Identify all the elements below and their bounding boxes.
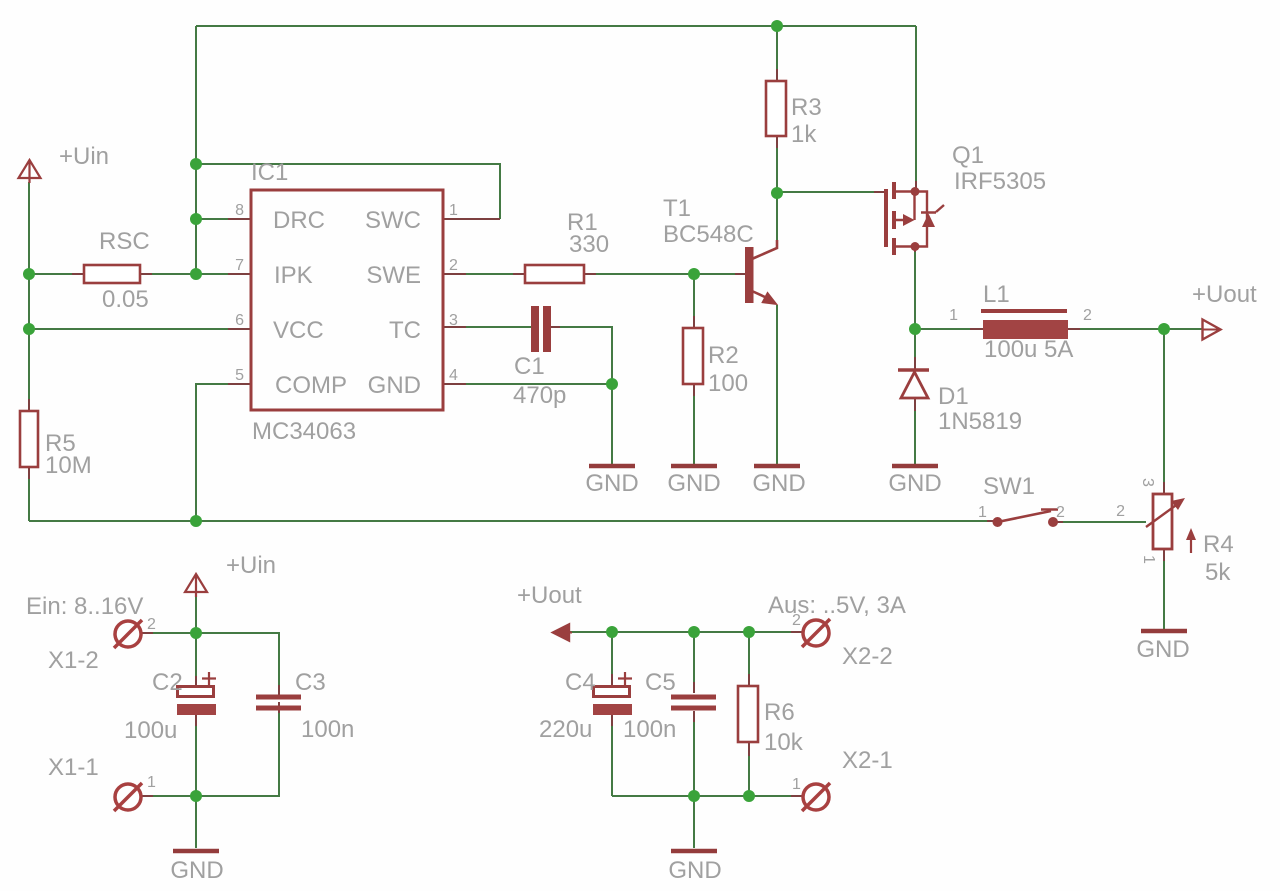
svg-text:SWE: SWE [366,262,421,289]
svg-text:+Uout: +Uout [1192,281,1257,308]
svg-text:2: 2 [1083,307,1092,324]
wire pin stub IC pin 8 [228,218,250,220]
node label +Uout arrow right [1192,281,1257,340]
svg-text:C5: C5 [645,669,676,696]
svg-text:C1: C1 [514,353,545,380]
svg-text:R3: R3 [791,94,822,121]
svg-text:1: 1 [978,504,987,521]
wire pin stub R4 bottom [1163,549,1165,561]
node junction R6 top [743,626,755,638]
wire Q1 drain down to L1 node [914,252,916,329]
wire pin stub X1-2 [142,632,153,634]
node junction SWC loop [190,158,202,170]
svg-text:1: 1 [792,776,801,793]
wire C5 top [693,632,695,682]
svg-text:Aus: ..5V, 3A: Aus: ..5V, 3A [768,592,906,619]
wire pin stub C3 bottom [278,702,280,713]
node junction R1 / T1 base / R2 [688,268,700,280]
svg-text:100n: 100n [301,716,354,743]
inductor L1 [949,281,1092,363]
wire pin stub L1 left [970,328,983,330]
wire R1 to T1 base node [596,273,735,275]
wire pin stub IC pin 4 [444,383,466,385]
wire D1 bottom to GND [914,411,916,464]
wire L1 node to L1 pin1 [915,328,970,330]
node junction R6 bottom [743,790,755,802]
wire R3 bottom to gate node [776,148,778,193]
wire L1 pin2 to +Uout node [1080,328,1164,330]
node junction Q1 drain / L1 / D1 [909,323,921,335]
svg-text:1k: 1k [791,121,817,148]
node junction VCC / R5 [23,323,35,335]
wire pin stub T1 base [735,273,745,275]
wire pin stub R5 top [28,399,30,411]
svg-text:470p: 470p [513,382,566,409]
node junction pin8 [190,213,202,225]
svg-text:TC: TC [389,317,421,344]
node junction X1-2 [190,627,202,639]
svg-text:1: 1 [449,202,458,219]
node junction C5 bottom [688,790,700,802]
wire X1 node to C2 [195,633,197,676]
svg-text:R2: R2 [708,342,739,369]
svg-text:GND: GND [368,372,421,399]
svg-text:220u: 220u [539,716,592,743]
node junction COMP / bottom rail [190,515,202,527]
wire pin stub Q1 source [915,181,917,191]
svg-text:+Uin: +Uin [226,552,276,579]
wire bottom rail [29,520,987,522]
wire pin stub L1 right [1068,328,1080,330]
svg-text:GND: GND [585,470,638,497]
svg-text:IRF5305: IRF5305 [954,168,1046,195]
wire pin stub C2 top [195,676,197,687]
svg-text:SW1: SW1 [983,473,1035,500]
wire R5 top [28,274,30,399]
wire R4 bottom to GND [1163,561,1165,629]
wire pin stub R1 right [584,273,596,275]
resistor R5 [20,411,92,479]
svg-text:X1-2: X1-2 [48,647,99,674]
svg-text:GND: GND [667,470,720,497]
svg-text:T1: T1 [663,195,691,222]
switch SW1 [978,473,1065,527]
node junction X1-1 [190,790,202,802]
wire base node down to R2 [693,274,695,316]
wire pin stub R6 top [748,674,750,686]
wire pin stub R1 left [513,273,525,275]
wire pin stub R6 bottom [748,742,750,756]
wire top rail down to Q1 source [915,26,917,181]
wire R2 bottom to GND [693,396,695,464]
wire pin stub R2 bottom [693,384,695,396]
wire RSC left [29,273,72,275]
node junction top rail / R3 [771,20,783,32]
ground T1 emitter [754,464,800,469]
resistor R2 [683,328,748,397]
node junction pin7 / RSC [190,268,202,280]
node junction +Uout / R4 [1158,323,1170,335]
wire pin stub R3 top [776,69,778,81]
ground R2 [671,464,717,469]
svg-text:SWC: SWC [365,207,421,234]
capacitor C4 polarized [539,669,632,743]
svg-text:R6: R6 [764,699,795,726]
svg-text:2: 2 [449,257,458,274]
wire +Uout node to arrow [1164,328,1202,330]
wire pin stub RSC left [72,273,84,275]
wire X1-1 to node [153,795,196,797]
diode D1 1N5819 [898,370,1022,435]
wire pin stub X1-1 [142,795,153,797]
wire pin stub RSC right [140,273,152,275]
ground X2 [671,849,717,854]
svg-text:GND: GND [888,470,941,497]
wire pin2 to R1 [466,273,513,275]
wire pin stub IC pin 3 [444,326,466,328]
svg-text:1: 1 [949,307,958,324]
ground X1 [173,849,219,854]
wire pin stub IC pin 6 [228,328,250,330]
wire pin stub C2 bottom [195,715,197,726]
wire pin4 GND to node [466,383,612,385]
wire C3 bottom to X1-1 node [196,713,279,796]
wire C2 bottom to X1-1 node [195,726,197,796]
wire X1 node to C3 top [196,633,279,685]
wire C4 top [611,632,613,674]
wire +Uin arrow to RSC node [28,182,30,274]
supply symbol +Uin top [19,160,41,183]
wire pin stub IC pin 2 [444,273,466,275]
transistor Q1 IRF5305 [874,142,1046,255]
svg-text:6: 6 [235,312,244,329]
capacitor C5 [623,669,716,743]
GROUNDS [173,466,1187,851]
connector X1-1 [48,754,156,811]
svg-text:5k: 5k [1205,559,1231,586]
svg-text:3: 3 [449,312,458,329]
wire C4 bottom [611,726,613,796]
svg-text:GND: GND [1136,636,1189,663]
wire pin stub C5 bottom [693,711,695,722]
svg-text:100u 5A: 100u 5A [984,336,1073,363]
resistor R1 [525,209,609,283]
svg-text:3: 3 [1139,478,1156,487]
wire pin5 COMP net [196,384,228,521]
svg-text:GND: GND [752,470,805,497]
svg-text:IC1: IC1 [251,159,288,186]
svg-text:L1: L1 [983,281,1010,308]
capacitor C3 [256,669,354,743]
node junction R3 / gate / collector [771,187,783,199]
wire pin stub R2 top [693,316,695,328]
wire C5 bottom [693,722,695,796]
wire +Uin arrow to X1 node [195,594,197,633]
svg-text:X2-2: X2-2 [842,643,893,670]
svg-text:D1: D1 [938,383,969,410]
svg-text:2: 2 [1116,503,1125,520]
svg-text:1: 1 [147,774,156,791]
wire pin stub C4 top [611,674,613,685]
svg-text:RSC: RSC [99,228,150,255]
wire +Uout arrow to X2-2 [569,631,791,633]
node junction C4 top [606,626,618,638]
wire X2 bottom rail [612,795,791,797]
wire pin stub C5 top [693,682,695,693]
wire X2 GND stem [693,796,695,848]
svg-text:1N5819: 1N5819 [938,408,1022,435]
svg-text:GND: GND [668,857,721,884]
svg-text:2: 2 [147,616,156,633]
wire left vertical to IC [195,26,197,274]
ground C1 [589,464,635,469]
svg-text:IPK: IPK [274,262,313,289]
wire T1 emitter to GND [776,305,778,464]
supply symbol +Uin lower [185,574,207,597]
wire R6 top [748,632,750,674]
svg-text:C4: C4 [565,669,596,696]
svg-text:X1-1: X1-1 [48,754,99,781]
wire pin stub C4 bottom [611,715,613,726]
capacitor C1 [513,306,566,409]
svg-text:2: 2 [792,612,801,629]
node junction C1 / pin4 [606,378,618,390]
connector X1-2 [48,616,156,674]
wire pin stub Q1 drain [914,247,916,252]
wire pin6 VCC net [29,328,228,330]
wire gate node to Q1 gate [777,191,874,193]
svg-text:8: 8 [235,202,244,219]
node junction C5 top [688,626,700,638]
wire X1-2 to node [153,632,196,634]
wire SW1 to R4 wiper [1063,521,1146,523]
capacitor C2 polarized [124,669,216,744]
resistor RSC [84,228,150,313]
wire pin stub X2-1 [791,795,803,797]
svg-text:7: 7 [235,257,244,274]
svg-text:Q1: Q1 [952,142,984,169]
svg-text:100u: 100u [124,717,177,744]
svg-text:Ein: 8..16V: Ein: 8..16V [26,593,143,620]
wire pin3 TC to C1 [466,326,531,328]
wire SWC loop from pin 1 [196,164,500,219]
wire pin stub C3 top [278,685,280,696]
svg-text:X2-1: X2-1 [842,747,893,774]
svg-text:R4: R4 [1203,531,1234,558]
potentiometer R4 [1116,478,1234,586]
wire pin stub R5 bottom [28,467,30,479]
wire pin stub IC pin 1 [444,218,500,220]
svg-text:10M: 10M [45,452,92,479]
op-amp IC1 MC34063 box [251,159,443,445]
wire X1-1 node to GND [195,796,197,848]
wire pin stub R3 bottom [776,136,778,148]
wire L1 node to D1 [914,329,916,357]
wire R5 bottom to bottom rail [28,479,30,521]
svg-text:VCC: VCC [273,317,324,344]
wire pin stub D1 bottom [914,399,916,411]
svg-text:DRC: DRC [273,207,325,234]
wire pin8 DRC [196,218,228,220]
svg-text:4: 4 [449,367,458,384]
svg-text:GND: GND [170,857,223,884]
wire C1 right to corner node [551,327,612,384]
svg-text:2: 2 [1056,504,1065,521]
svg-text:330: 330 [569,231,609,258]
wire pin stub SW1 left [987,520,997,522]
svg-text:100n: 100n [623,716,676,743]
svg-text:5: 5 [235,367,244,384]
node label +Uout arrow left [517,582,582,641]
svg-text:COMP: COMP [275,372,347,399]
svg-text:MC34063: MC34063 [252,418,356,445]
wire pin stub IC pin 7 [228,273,250,275]
svg-text:1: 1 [1140,555,1157,564]
svg-text:BC548C: BC548C [663,221,754,248]
svg-text:0.05: 0.05 [102,286,149,313]
svg-text:+Uin: +Uin [59,143,109,170]
wire RSC right to pin7 [152,273,228,275]
wire pin stub R4 top [1163,482,1165,494]
svg-text:C3: C3 [295,669,326,696]
wire pin stub C1 right [551,326,560,328]
wire pin stub D1 top [914,357,916,369]
ground R4 [1141,629,1187,634]
wire +Uout node down to R4 [1163,329,1165,482]
resistor R3 [766,81,822,148]
svg-text:+Uout: +Uout [517,582,582,609]
svg-text:C2: C2 [152,669,183,696]
wire R3 top [776,26,778,69]
resistor R6 [738,686,804,756]
connector X2-1 [792,747,893,811]
node junction RSC left [23,268,35,280]
wire pin stub IC pin 5 [228,383,250,385]
wire top +Uin rail [196,25,916,27]
svg-text:10k: 10k [764,729,804,756]
wire node to GND symbol [611,384,613,464]
wire gate node down to T1 collector [776,193,778,240]
wire pin stub SW1 right [1053,521,1063,523]
ground D1 [892,464,938,469]
connector X2-2 [792,612,893,670]
wire pin stub X2-2 [791,631,803,633]
wire R6 bottom [748,756,750,796]
transistor T1 BC548C [663,195,777,305]
svg-text:100: 100 [708,370,748,397]
